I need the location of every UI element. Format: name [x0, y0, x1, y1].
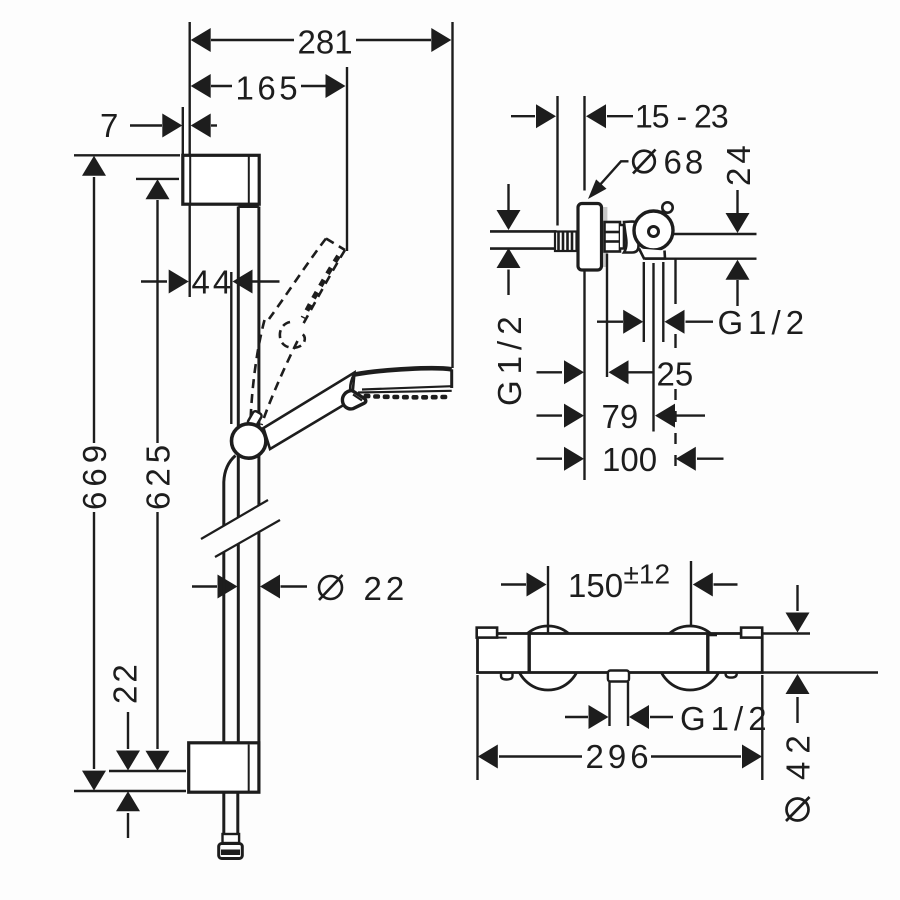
svg-text:165: 165 [236, 70, 302, 107]
svg-text:22: 22 [107, 661, 144, 704]
svg-text:669: 669 [76, 440, 113, 510]
svg-text:68: 68 [664, 144, 707, 181]
svg-text:100: 100 [602, 441, 657, 478]
svg-text:625: 625 [140, 440, 177, 510]
svg-text:G1/2: G1/2 [680, 700, 772, 737]
svg-text:296: 296 [586, 738, 653, 775]
svg-text:25: 25 [657, 356, 694, 393]
svg-text:G1/2: G1/2 [491, 310, 528, 406]
svg-text:79: 79 [602, 398, 639, 435]
svg-text:150: 150 [568, 567, 623, 604]
svg-text:7: 7 [100, 107, 118, 144]
svg-text:42: 42 [780, 727, 817, 780]
svg-text:44: 44 [192, 264, 235, 301]
svg-text:±12: ±12 [624, 559, 671, 590]
svg-text:24: 24 [720, 141, 757, 186]
svg-text:22: 22 [364, 570, 409, 607]
svg-text:15 - 23: 15 - 23 [635, 99, 728, 135]
svg-text:281: 281 [298, 24, 353, 61]
svg-text:G1/2: G1/2 [718, 304, 810, 341]
